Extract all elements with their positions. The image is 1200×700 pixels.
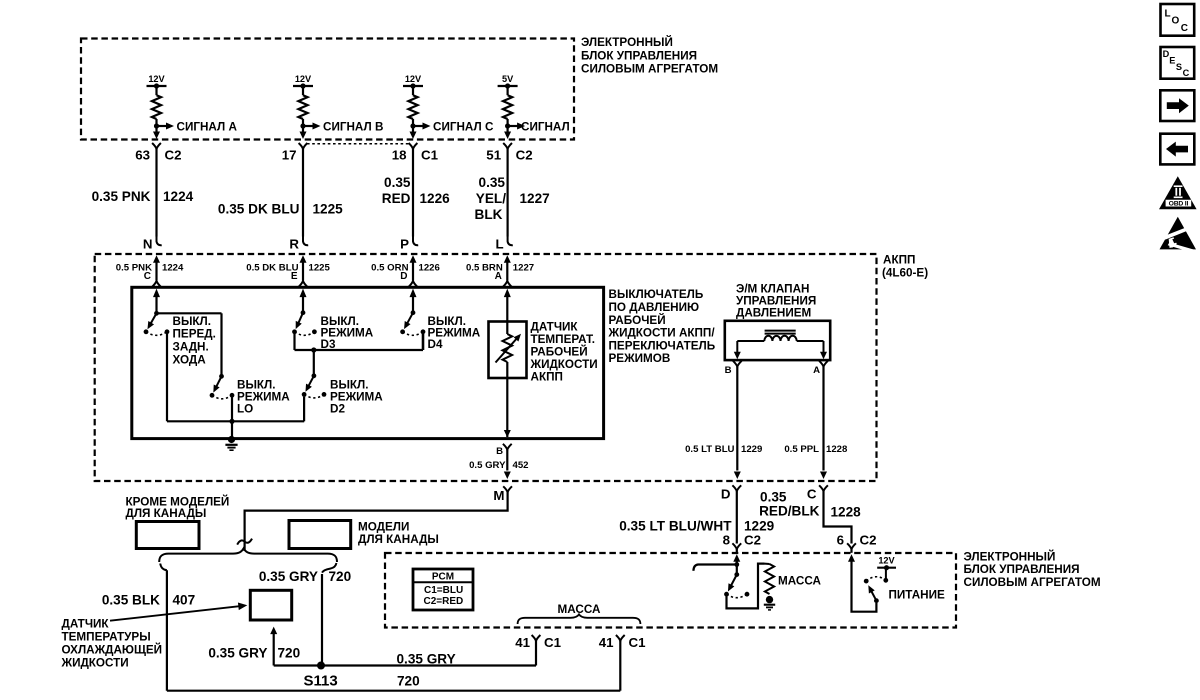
thermistor arrow shaft [496,337,519,363]
svg-text:720: 720 [329,569,352,584]
svg-text:E: E [291,271,298,282]
connector pin 41 second [616,635,625,641]
svg-text:ЖИДКОСТИ АКПП/: ЖИДКОСТИ АКПП/ [608,327,716,340]
arrow into connector [300,132,307,140]
arrow up at AKPP entry E [300,255,307,262]
svg-text:63: 63 [135,147,150,162]
non-Canada option box [136,522,199,549]
svg-text:СИЛОВЫМ АГРЕГАТОМ: СИЛОВЫМ АГРЕГАТОМ [581,63,718,76]
solenoid core bar1 [765,330,796,332]
wire [302,261,304,280]
icon button next arrow [1160,90,1194,121]
svg-text:C2: C2 [516,147,533,162]
ground wire run to pin 41 [274,664,536,666]
wire [412,295,414,313]
ground symbol bar2 [227,447,235,449]
D3 mode switch lever [298,313,303,325]
solenoid pin A connector [819,361,828,367]
thermistor zigzag [503,334,513,362]
ground bar2 MASSA [766,606,773,608]
svg-text:ЭЛЕКТРОННЫЙ: ЭЛЕКТРОННЫЙ [581,36,673,49]
wire [220,313,222,376]
svg-text:АКПП: АКПП [883,254,915,267]
svg-text:1228: 1228 [831,505,862,520]
junction with stub [734,562,739,567]
wire 1228 inside AKPP [822,367,824,471]
D4 mode switch common [411,310,416,315]
wire from D3 contact [293,334,295,350]
case connector B [503,444,512,450]
svg-text:0.5 LT BLU: 0.5 LT BLU [685,444,734,455]
svg-text:РЕЖИМОВ: РЕЖИМОВ [609,352,671,365]
svg-text:BLK: BLK [475,207,503,222]
wire up to pin 41 second [619,648,621,691]
D2 mode switch contact A [302,392,307,397]
svg-text:C2: C2 [744,533,761,548]
bottom ground wire 407 [167,690,620,692]
svg-text:41: 41 [515,635,530,650]
MASSA pins brace [518,614,641,624]
right arrow glyph [1167,98,1189,113]
svg-text:YEL/: YEL/ [476,191,506,206]
svg-text:СИЛОВЫМ АГРЕГАТОМ: СИЛОВЫМ АГРЕГАТОМ [964,576,1101,589]
svg-text:ПИТАНИЕ: ПИТАНИЕ [889,589,945,602]
wire [535,641,537,648]
forward/reverse switch contact A [144,329,149,334]
right option hook [322,563,336,573]
connector male hook [508,237,513,246]
wire [155,295,157,314]
svg-text:C: C [1181,23,1188,34]
arrow to assembly edge [504,430,511,438]
wire [302,119,304,126]
svg-text:D4: D4 [428,338,443,351]
MASSA driver switch common [734,572,739,577]
connector C1 bracket (pins 17-18) [307,143,409,145]
wire signal tap [157,125,167,127]
wire [507,119,509,126]
svg-text:D: D [400,271,407,282]
power switch lever arrow [868,585,874,593]
svg-text:8: 8 [723,533,730,548]
wire up to pin 41 first [535,648,537,666]
svg-text:407: 407 [173,592,196,607]
wire [302,295,304,313]
svg-text:R: R [289,236,299,251]
svg-text:41: 41 [599,635,614,650]
LO mode switch contact B [230,393,235,398]
svg-text:PCM: PCM [432,571,454,582]
power switch common [874,598,879,603]
svg-text:0.35 PNK: 0.35 PNK [92,189,151,204]
svg-text:ДАВЛЕНИЕМ: ДАВЛЕНИЕМ [736,306,811,319]
wire from pin 17 [302,149,304,237]
svg-text:БЛОК УПРАВЛЕНИЯ: БЛОК УПРАВЛЕНИЯ [581,49,697,62]
splice S113 [317,662,325,670]
solenoid core bar2 [765,333,796,335]
5V supply rail bar [498,85,518,87]
wire from fwd/rev contact down [166,334,168,421]
D2 mode switch throw arc [304,394,324,398]
power switch contact B [883,578,888,583]
LO mode switch lever [216,376,222,388]
D4 mode switch contact A [400,329,405,334]
supply rail node [154,83,159,88]
svg-text:ЗАДН.: ЗАДН. [173,341,209,354]
svg-text:ОХЛАЖДАЮЩЕЙ: ОХЛАЖДАЮЩЕЙ [62,644,163,657]
thermistor arrow head [514,334,521,342]
arrow up at AKPP entry C [153,255,160,262]
svg-text:1229: 1229 [744,518,775,533]
arrow into connector [504,132,511,140]
wire to resistor top [765,563,770,565]
pointer arrowhead [238,603,247,611]
svg-text:5V: 5V [502,74,514,84]
connector pin 41 first [532,635,541,641]
wire [412,86,414,95]
connector pin 51 female half [503,143,512,149]
wire 720 to sensor [273,633,275,666]
connector male hook [413,237,418,246]
node СИГНАЛ [505,123,510,128]
wire [736,560,738,575]
svg-text:ВЫКЛ.: ВЫКЛ. [173,315,211,328]
MASSA driver switch throw arc [727,594,748,598]
case connector A symbol [503,281,512,287]
svg-text:ПО ДАВЛЕНИЮ: ПО ДАВЛЕНИЮ [609,301,700,314]
svg-text:1226: 1226 [419,262,440,273]
options split brace [159,548,337,562]
svg-text:0.35: 0.35 [760,490,787,505]
ground resistor [765,564,774,594]
svg-text:A: A [495,271,502,282]
wire from pin 51 [507,149,509,237]
D3 mode switch throw arc [295,332,315,336]
svg-text:C: C [1183,68,1190,78]
wire [506,295,508,322]
D3 mode switch contact A [292,329,297,334]
svg-text:LO: LO [237,402,253,415]
wire 720 riser [321,574,323,666]
svg-text:0.5 PPL: 0.5 PPL [784,444,819,455]
PCM block (bottom) dashed outline [385,553,956,628]
LO mode switch contact A [210,393,215,398]
wire to power switch [852,560,877,612]
wire [302,86,304,95]
svg-text:ДЛЯ КАНАДЫ: ДЛЯ КАНАДЫ [126,507,207,520]
PCM legend divider [413,581,473,583]
svg-text:1225: 1225 [313,202,344,217]
svg-text:C1: C1 [629,635,647,650]
svg-text:17: 17 [282,147,297,162]
wire M to splice area [245,492,508,551]
svg-text:ТЕМПЕРАТУРЫ: ТЕМПЕРАТУРЫ [62,630,151,643]
D4 mode switch contact B [421,329,426,334]
svg-text:E: E [1169,55,1175,65]
MASSA driver switch lever [730,575,736,587]
coil lead right [797,340,824,342]
supply rail node [300,83,305,88]
ground bar3 MASSA [768,609,771,611]
case connector D symbol [409,281,418,287]
svg-text:(4L60-E): (4L60-E) [882,267,928,280]
connector male hook [303,237,308,246]
connector C [819,485,828,491]
svg-text:720: 720 [278,645,301,660]
ground bars MASSA [764,604,775,606]
ground node [228,436,235,443]
12V supply rail bar [403,85,423,87]
svg-text:0.35: 0.35 [384,175,411,190]
svg-text:D: D [721,487,731,502]
wire to pin B [506,378,508,437]
wire 407 riser [166,570,168,690]
pull-up resistor R4 [503,95,512,119]
svg-text:A: A [813,365,820,376]
svg-text:0.35 LT BLU/WHT: 0.35 LT BLU/WHT [619,518,732,533]
wire 1229 inside AKPP [736,367,738,471]
arrow at AKPP exit M [504,472,511,480]
pull-up resistor R2 [298,95,307,119]
svg-text:ДЛЯ КАНАДЫ: ДЛЯ КАНАДЫ [358,533,439,546]
forward/reverse switch throw arc [146,332,167,336]
svg-text:RED/BLK: RED/BLK [759,504,820,519]
junction on lower bus [229,419,234,424]
PCM legend box [413,569,473,610]
svg-text:0.35 DK BLU: 0.35 DK BLU [218,202,300,217]
ESD warning triangle icon [1160,217,1197,250]
lower bus wire [167,420,304,422]
connector pin 8 [732,543,741,549]
svg-text:1227: 1227 [513,262,534,273]
wire break squiggle [237,539,252,545]
svg-text:6: 6 [837,533,844,548]
PCM block (top) dashed outline [81,39,574,140]
svg-text:720: 720 [397,673,420,688]
svg-text:0.35 GRY: 0.35 GRY [208,645,267,660]
svg-text:C2: C2 [165,147,182,162]
pointer line to coolant sensor [110,606,240,621]
ground dot MASSA [766,596,773,603]
svg-text:МАССА: МАССА [558,603,601,616]
svg-text:ЖИДКОСТИ: ЖИДКОСТИ [530,358,598,371]
svg-text:O: O [1172,16,1180,27]
D3 mode switch common [301,310,306,315]
wire from pin 63 [155,149,157,237]
arrow up at AKPP entry A [504,255,511,262]
D3 mode switch contact B [312,329,317,334]
supply rail node [505,83,510,88]
left arrow glyph [1166,142,1188,157]
svg-text:P: P [400,236,409,251]
svg-text:ВЫКЛЮЧАТЕЛЬ: ВЫКЛЮЧАТЕЛЬ [609,288,704,301]
wire in sensor [506,322,508,335]
solenoid box [725,321,830,360]
svg-text:СИГНАЛ C: СИГНАЛ C [433,121,494,134]
svg-text:ДАТЧИК: ДАТЧИК [531,321,579,334]
wire [155,119,157,126]
svg-text:ПЕРЕКЛЮЧАТЕЛЬ: ПЕРЕКЛЮЧАТЕЛЬ [609,339,716,352]
svg-text:C2=RED: C2=RED [424,596,464,607]
case connector C symbol [152,281,161,287]
wire to LO switch [157,312,222,314]
wire signal tap [413,125,423,127]
svg-text:МАССА: МАССА [778,574,821,587]
D2 mode switch contact B [322,392,327,397]
svg-text:0.35: 0.35 [479,175,506,190]
D4 mode switch lever [407,313,413,325]
svg-text:12V: 12V [878,556,895,566]
svg-text:12V: 12V [405,74,422,84]
coil lead left [737,340,764,342]
12V supply rail bar [147,85,167,87]
svg-text:1225: 1225 [309,262,331,273]
svg-text:B: B [496,446,503,457]
wire signal tap [508,125,518,127]
node СИГНАЛ A [154,123,159,128]
Canada option box [289,521,351,549]
solenoid pin B connector [733,361,742,367]
AKPP (4L60-E) dashed outline [95,254,877,481]
wire [619,641,621,648]
wire [736,549,738,553]
12V supply rail bar [293,85,313,87]
svg-text:C: C [807,487,817,502]
wire to ground resistor [727,564,765,609]
wire 1229 to pin 8 [736,491,738,543]
wire [412,261,414,280]
wire from D2 contact to lower bus [303,397,305,422]
coolant temp sensor box [250,590,291,620]
wire from pin 18 [412,149,414,237]
svg-text:СИГНАЛ A: СИГНАЛ A [177,121,238,134]
connector pin 17 female half [299,143,308,149]
svg-text:M: M [493,488,504,503]
svg-text:МОДЕЛИ: МОДЕЛИ [358,520,409,533]
node СИГНАЛ B [300,123,305,128]
wire [506,261,508,280]
svg-text:1227: 1227 [520,191,550,206]
svg-text:1228: 1228 [826,444,848,455]
icon button LOC [1161,4,1195,36]
12V rail bar [877,567,896,569]
LO mode switch common [219,374,224,379]
svg-text:1224: 1224 [163,189,194,204]
svg-text:ТЕМПЕРАТ.: ТЕМПЕРАТ. [531,333,596,346]
svg-text:C: C [144,271,151,282]
svg-text:0.35 BLK: 0.35 BLK [102,592,160,607]
arrow at AKPP exit B [734,472,741,480]
svg-text:ДАТЧИК: ДАТЧИК [62,617,110,630]
wire [507,126,509,132]
svg-text:РАБОЧЕЙ: РАБОЧЕЙ [609,314,666,327]
svg-text:ЖИДКОСТИ: ЖИДКОСТИ [61,657,129,670]
OBD II triangle icon [1159,176,1197,209]
arrow into PCM at pin 8 [733,554,740,562]
svg-text:S: S [1176,62,1182,72]
svg-text:ЭЛЕКТРОННЫЙ: ЭЛЕКТРОННЫЙ [964,550,1056,563]
arrow into switch assembly [153,289,160,298]
forward/reverse switch common [154,311,159,316]
wire to 12V [885,568,887,581]
wire 1228 jog to pin 6 [824,491,852,543]
wire [155,126,157,132]
connector male hook [157,237,162,246]
icon button DESC [1161,47,1195,79]
svg-text:0.35 GRY: 0.35 GRY [259,569,318,584]
power switch contact A [864,579,869,584]
connector pin 63 female half [152,143,161,149]
wire from LO contact to ground [231,398,233,439]
arrow to solenoid pin B [734,352,741,360]
svg-text:БЛОК УПРАВЛЕНИЯ: БЛОК УПРАВЛЕНИЯ [964,563,1080,576]
svg-text:12V: 12V [148,74,165,84]
svg-text:1226: 1226 [420,191,451,206]
svg-text:C2: C2 [860,533,877,548]
svg-text:OBD II: OBD II [1169,201,1189,208]
forward/reverse switch contact B [165,329,170,334]
connector pin 6 [847,543,856,549]
svg-text:ПЕРЕД.: ПЕРЕД. [173,328,216,341]
LO mode switch throw arc [212,395,232,399]
svg-text:СИГНАЛ: СИГНАЛ [521,121,570,134]
arrow up at AKPP entry D [410,255,417,262]
D2 mode switch common [312,373,317,378]
case connector E symbol [299,281,308,287]
arrow at AKPP exit A [820,472,827,480]
svg-text:ХОДА: ХОДА [173,353,207,366]
wire [823,341,825,352]
wire [507,86,509,95]
power switch throw arc [866,577,886,581]
wire in sensor [506,362,508,378]
arrow into switch assembly [504,289,511,298]
power switch lever [871,591,876,601]
svg-text:452: 452 [513,460,529,471]
12V rail node [884,565,889,570]
MASSA driver switch contact B [745,592,750,597]
svg-text:0.5 GRY: 0.5 GRY [469,460,506,471]
connector pin 18 female half [409,143,418,149]
pull-up resistor R1 [152,95,161,119]
supply rail node [410,83,415,88]
connector D [732,485,741,491]
arrow into coolant sensor [270,627,277,635]
arrow into PCM at pin 6 [848,554,855,562]
arrow to solenoid pin A [820,352,827,360]
svg-text:L: L [1165,8,1171,19]
AT fluid temp sensor box [489,322,527,379]
solenoid coil L1 [764,336,796,341]
arrow into connector [153,132,160,140]
svg-text:C1=BLU: C1=BLU [424,585,463,596]
svg-text:S113: S113 [304,672,338,689]
svg-text:L: L [495,236,503,251]
D4 mode switch throw arc [403,332,423,336]
forward/reverse switch lever [150,313,157,324]
wire [736,341,738,352]
wire [302,126,304,132]
svg-text:1229: 1229 [741,444,762,455]
ground symbol bar1 [225,444,237,446]
D2 mode switch lever [308,376,314,388]
svg-text:0.35 GRY: 0.35 GRY [397,651,456,666]
ground symbol bar3 [229,449,233,451]
wire [412,119,414,126]
bus wire D3-D4 [295,349,424,351]
svg-text:D2: D2 [330,402,345,415]
icon button prev arrow [1160,134,1194,165]
